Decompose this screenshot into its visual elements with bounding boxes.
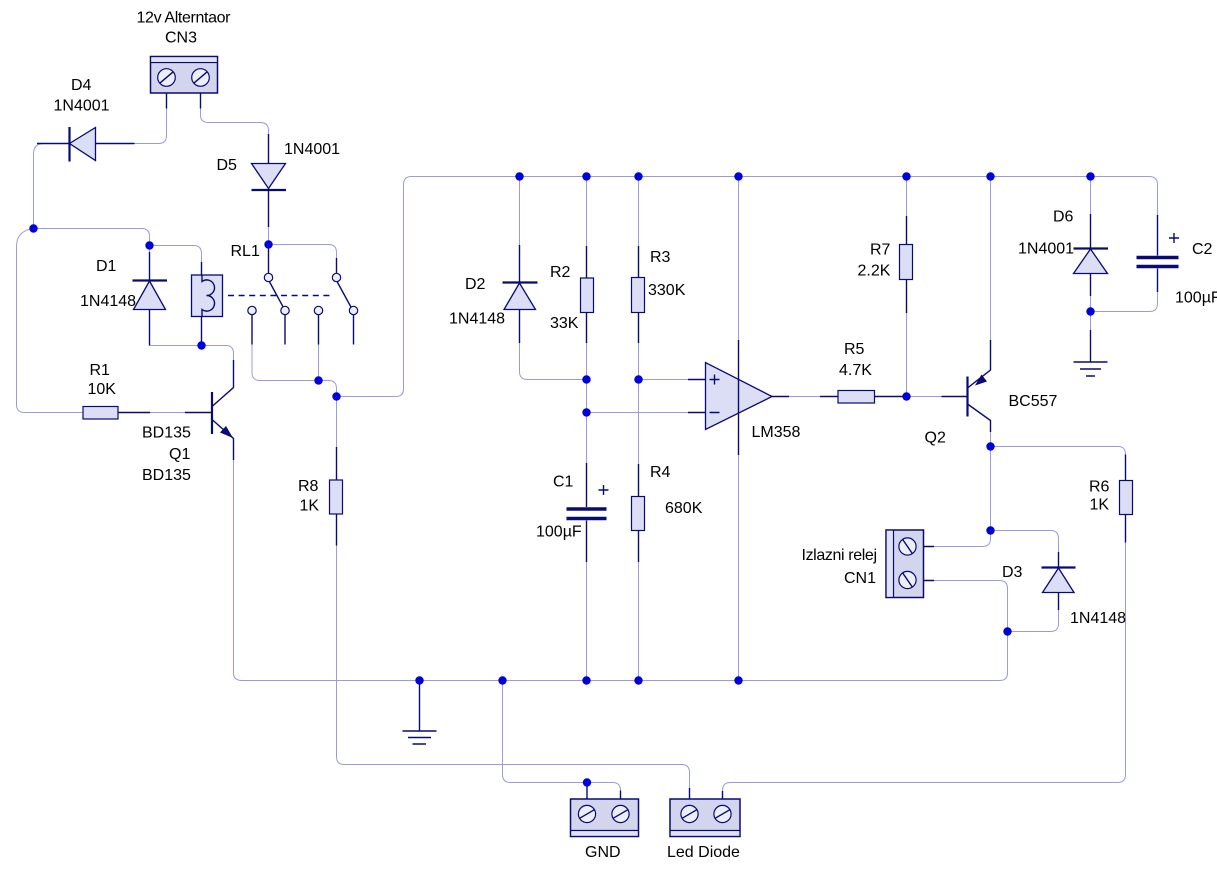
wire: R2/C1 column: [586, 177, 588, 681]
wire: D3 node down to ground rail end: [1000, 632, 1008, 681]
svg-text:R1: R1: [90, 362, 111, 379]
wire: R1 to Q1 base: [150, 412, 185, 414]
connector CN4 Led Diode: [670, 788, 740, 837]
node rail op-amp: [734, 676, 742, 684]
wire: CN3 pin2 to D5 top: [201, 109, 269, 135]
wire: op-amp power column: [738, 177, 740, 681]
wire: Q2 collector node down to CN1 node: [990, 447, 992, 531]
node rail C1: [582, 676, 590, 684]
svg-text:1N4148: 1N4148: [80, 293, 136, 310]
wire: D2 column top: [519, 177, 521, 246]
node Q2 collector: [986, 442, 994, 450]
node D6 bottom: [1086, 307, 1094, 315]
wire: D1 top lead light part: [149, 246, 151, 253]
svg-text:BD135: BD135: [142, 467, 191, 484]
wire: contact node to R8 top node: [319, 381, 337, 397]
svg-text:R8: R8: [298, 478, 319, 495]
svg-text:1K: 1K: [1090, 497, 1110, 514]
svg-text:100µF: 100µF: [536, 524, 582, 541]
diode D6: [1074, 214, 1109, 296]
node R8 top junction: [332, 392, 340, 400]
node rail R4: [634, 676, 642, 684]
connector CN2 GND: [571, 783, 639, 837]
svg-text:Led Diode: Led Diode: [667, 844, 740, 861]
wire: R8 node right and up to +12V bus: [337, 177, 1158, 397]
wire: R6 bottom to Led Diode pin2: [723, 514, 1126, 791]
wire: node A down left rail to R1: [17, 229, 84, 413]
node bus R3: [634, 172, 642, 180]
relay coil RL1: [192, 262, 223, 346]
node bus op-amp: [734, 172, 742, 180]
connector CN1: [886, 530, 934, 598]
resistor R6: [1120, 455, 1133, 543]
svg-text:Q2: Q2: [925, 430, 946, 447]
node D3 bottom: [1003, 627, 1011, 635]
wire: node to D3 top: [991, 531, 1059, 553]
diode D3: [1042, 552, 1076, 610]
svg-text:1N4001: 1N4001: [1018, 241, 1074, 258]
wire: CN3 pin1 to D4 anode: [135, 109, 167, 144]
resistor R7: [900, 216, 913, 313]
wire: R3/R4 column: [638, 177, 640, 681]
node Q2 base: [902, 392, 910, 400]
svg-text:4.7K: 4.7K: [839, 362, 872, 379]
wire: R8 top lead light: [336, 397, 338, 448]
svg-text:LM358: LM358: [752, 424, 801, 441]
diode D4: [37, 127, 135, 162]
svg-text:CN3: CN3: [165, 30, 197, 47]
node coil bottom junction: [197, 341, 205, 349]
svg-text:D3: D3: [1002, 564, 1023, 581]
svg-text:R5: R5: [844, 341, 865, 358]
svg-text:R4: R4: [650, 464, 671, 481]
wire: GND rail branch to GND connector: [503, 681, 621, 792]
wire: bottom ground rail: [242, 680, 1000, 682]
capacitor C2: [1137, 215, 1180, 292]
node bus D6: [1086, 172, 1094, 180]
wire: Q2 collector node right to R6 top: [991, 447, 1126, 481]
wire: Q1 emitter down to ground rail: [234, 460, 243, 681]
diode D5: [252, 134, 287, 245]
node relay feed junction: [264, 240, 272, 248]
node noninverting net R3: [634, 375, 642, 383]
svg-text:C2: C2: [1192, 241, 1213, 258]
svg-text:R2: R2: [550, 264, 571, 281]
resistor R1: [83, 407, 150, 420]
ground for D6: [1074, 330, 1108, 376]
wire: node B to relay coil top: [150, 246, 202, 263]
op-amp U1 LM358: [688, 340, 838, 455]
relay throw contacts: [248, 306, 358, 344]
svg-text:10K: 10K: [88, 381, 117, 398]
resistor R4: [632, 464, 645, 562]
svg-text:CN1: CN1: [844, 570, 876, 587]
wire: coil bottom node to Q1 collector: [202, 346, 234, 361]
wire: R7 column: [906, 177, 908, 397]
svg-text:D1: D1: [96, 258, 117, 275]
transistor Q2: [942, 340, 991, 432]
wire: D2 bottom to inverting node: [520, 343, 587, 380]
svg-text:D2: D2: [465, 276, 486, 293]
connector CN3: [151, 57, 218, 109]
wire: CN1 pin1 to node: [934, 531, 991, 547]
node relay contacts junction: [314, 376, 322, 384]
wire: D3 bottom to node: [1008, 610, 1059, 632]
svg-text:1N4148: 1N4148: [1070, 610, 1126, 627]
diode D2: [503, 245, 538, 343]
node inverting net R2: [582, 375, 590, 383]
resistor R2: [581, 246, 594, 343]
svg-text:BC557: BC557: [1009, 393, 1058, 410]
node bus R7: [902, 172, 910, 180]
svg-text:2.2K: 2.2K: [858, 263, 891, 280]
wire: D6 column: [1090, 177, 1092, 331]
ground main: [403, 684, 437, 744]
node rail ground: [415, 676, 423, 684]
transistor Q1: [185, 360, 234, 460]
node D1/coil junction: [145, 241, 153, 249]
svg-text:BD135: BD135: [142, 425, 191, 442]
wire: node to op-amp plus input: [639, 379, 689, 381]
svg-text:680K: 680K: [665, 500, 703, 517]
wire: R8 bottom long run to Led Diode pin1: [337, 546, 690, 789]
node minus input tap: [582, 408, 590, 416]
svg-text:RL1: RL1: [231, 243, 260, 260]
svg-text:12v Alterntaor: 12v Alterntaor: [137, 10, 232, 27]
node GND pin1: [583, 778, 591, 786]
svg-text:Q1: Q1: [169, 446, 190, 463]
svg-text:1K: 1K: [300, 498, 320, 515]
svg-text:330K: 330K: [648, 282, 686, 299]
wire: node A right to D1/coil node: [34, 229, 150, 246]
svg-text:1N4148: 1N4148: [449, 311, 505, 328]
wire: Q2 emitter column: [990, 177, 992, 341]
wire: R5 right to Q2 base node: [907, 396, 942, 398]
svg-text:33K: 33K: [550, 315, 579, 332]
svg-text:GND: GND: [585, 844, 621, 861]
node bus Q2: [986, 172, 994, 180]
svg-text:Izlazni relej: Izlazni relej: [802, 547, 878, 564]
svg-text:D4: D4: [71, 77, 92, 94]
svg-text:D5: D5: [217, 157, 238, 174]
node CN1 pin1: [986, 526, 994, 534]
relay switch blades: [270, 282, 353, 309]
svg-text:D6: D6: [1053, 209, 1074, 226]
resistor R8: [330, 447, 343, 546]
svg-text:R3: R3: [650, 249, 671, 266]
node rail GND branch: [498, 676, 506, 684]
node bus D2: [515, 172, 523, 180]
wire: D4 cathode down to node A: [34, 144, 45, 229]
wire: relay contact3 down to node: [318, 345, 320, 381]
svg-text:1N4001: 1N4001: [284, 141, 340, 158]
node bus R2: [582, 172, 590, 180]
svg-text:C1: C1: [553, 474, 574, 491]
wire: CN1 pin2 to D3 bottom node: [934, 581, 1008, 632]
wire: node to op-amp minus input: [587, 412, 689, 414]
wire: C2 column: [1091, 292, 1158, 312]
node A junction: [29, 224, 37, 232]
wire: relay contact1 down and right to node: [252, 345, 319, 381]
wire: D1 bottom to coil bottom node: [150, 345, 202, 347]
svg-text:R7: R7: [870, 242, 891, 259]
svg-text:R6: R6: [1089, 479, 1110, 496]
wire: relay feed to second pole: [269, 245, 337, 259]
svg-text:100µF: 100µF: [1175, 290, 1217, 307]
diode D1: [133, 252, 168, 346]
relay switch poles: [264, 245, 340, 282]
relay dashed link: [228, 295, 332, 297]
resistor R3: [632, 246, 645, 343]
wire: Q2 collector light segment: [990, 432, 992, 447]
resistor R5: [838, 391, 907, 404]
svg-text:1N4001: 1N4001: [54, 98, 110, 115]
capacitor C1: [567, 463, 609, 562]
